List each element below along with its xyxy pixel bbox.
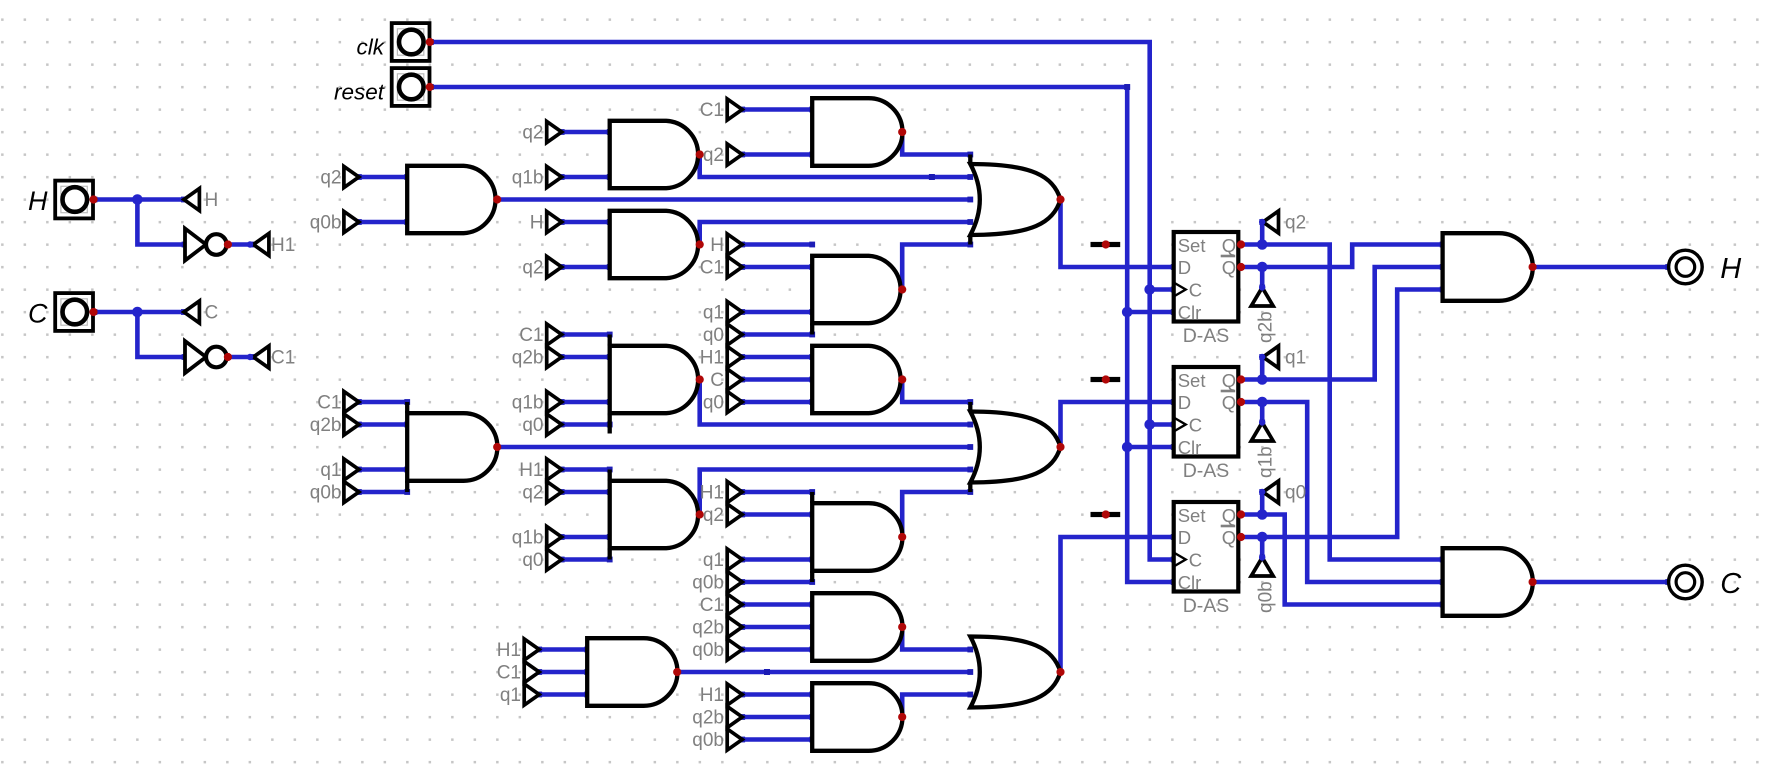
svg-text:Q: Q [1222, 505, 1236, 526]
svg-text:C1: C1 [700, 595, 724, 616]
svg-text:q1b: q1b [512, 393, 544, 414]
svg-text:q2: q2 [703, 505, 724, 526]
svg-text:q0b: q0b [310, 213, 342, 234]
svg-text:H1: H1 [700, 685, 724, 706]
svg-text:H1: H1 [700, 348, 724, 369]
svg-text:H: H [1720, 253, 1741, 285]
svg-text:Q: Q [1222, 257, 1236, 278]
svg-text:Set: Set [1178, 505, 1206, 526]
svg-text:q2: q2 [1285, 213, 1306, 234]
svg-text:Set: Set [1178, 235, 1206, 256]
svg-text:Set: Set [1178, 370, 1206, 391]
svg-text:q2: q2 [703, 145, 724, 166]
svg-text:q2: q2 [522, 258, 543, 279]
svg-text:C: C [1189, 280, 1202, 301]
svg-text:H1: H1 [271, 235, 295, 256]
svg-text:D: D [1178, 527, 1191, 548]
svg-text:C1: C1 [700, 100, 724, 121]
svg-text:C1: C1 [497, 663, 521, 684]
svg-text:H: H [205, 190, 219, 211]
svg-text:C1: C1 [271, 348, 295, 369]
svg-text:q0b: q0b [1256, 581, 1277, 613]
svg-text:q1: q1 [500, 685, 521, 706]
svg-text:D-AS: D-AS [1183, 325, 1230, 347]
svg-text:q2: q2 [522, 123, 543, 144]
svg-text:q0b: q0b [692, 640, 724, 661]
svg-text:Q: Q [1222, 235, 1236, 256]
svg-text:C1: C1 [700, 258, 724, 279]
svg-text:D: D [1178, 257, 1191, 278]
svg-text:q2b: q2b [1256, 311, 1277, 343]
svg-text:q0: q0 [703, 393, 724, 414]
svg-text:H1: H1 [700, 483, 724, 504]
svg-text:q0: q0 [522, 415, 543, 436]
svg-text:Clr: Clr [1178, 302, 1202, 323]
svg-text:q1: q1 [703, 550, 724, 571]
svg-text:q1b: q1b [512, 168, 544, 189]
svg-text:q2: q2 [320, 168, 341, 189]
svg-text:D-AS: D-AS [1183, 460, 1230, 482]
svg-text:q0b: q0b [310, 483, 342, 504]
svg-text:q1b: q1b [512, 528, 544, 549]
svg-text:H1: H1 [497, 640, 521, 661]
svg-text:q1: q1 [1285, 348, 1306, 369]
svg-text:q2: q2 [522, 483, 543, 504]
svg-text:q0: q0 [703, 325, 724, 346]
svg-text:D: D [1178, 392, 1191, 413]
svg-text:H: H [710, 235, 724, 256]
svg-text:Clr: Clr [1178, 437, 1202, 458]
svg-text:reset: reset [334, 80, 386, 105]
svg-text:q2b: q2b [692, 708, 724, 729]
svg-text:C: C [1189, 415, 1202, 436]
svg-text:clk: clk [357, 35, 386, 60]
svg-text:C: C [205, 303, 219, 324]
svg-text:H: H [28, 186, 48, 216]
svg-text:C: C [710, 370, 724, 391]
svg-text:Q: Q [1222, 527, 1236, 548]
svg-text:q1b: q1b [1256, 446, 1277, 478]
svg-text:H1: H1 [519, 460, 543, 481]
svg-text:C1: C1 [317, 393, 341, 414]
svg-text:q2b: q2b [310, 415, 342, 436]
svg-text:q0: q0 [1285, 483, 1306, 504]
svg-text:q0: q0 [522, 550, 543, 571]
svg-text:q2b: q2b [692, 618, 724, 639]
svg-text:q2b: q2b [512, 348, 544, 369]
svg-text:q1: q1 [703, 303, 724, 324]
svg-text:q0b: q0b [692, 573, 724, 594]
svg-text:q0b: q0b [692, 730, 724, 751]
svg-text:C1: C1 [519, 325, 543, 346]
svg-text:D-AS: D-AS [1183, 595, 1230, 617]
svg-text:Q: Q [1222, 392, 1236, 413]
svg-text:q1: q1 [320, 460, 341, 481]
svg-text:C: C [1189, 550, 1202, 571]
svg-text:C: C [28, 299, 48, 329]
svg-text:H: H [530, 213, 544, 234]
svg-text:C: C [1720, 568, 1742, 600]
svg-text:Q: Q [1222, 370, 1236, 391]
svg-text:Clr: Clr [1178, 572, 1202, 593]
